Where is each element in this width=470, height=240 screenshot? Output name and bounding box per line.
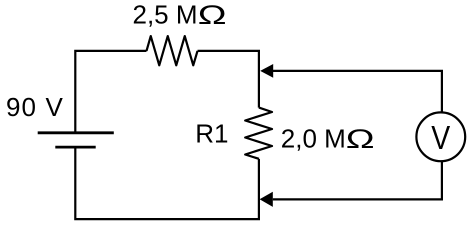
svg-text:Ω: Ω <box>346 125 375 155</box>
wire: resistor to top-right corner, down to R1 top <box>198 51 259 108</box>
arrowhead: bottom voltmeter lead pointing at middle-branch node <box>260 192 273 207</box>
resistor R1 vertical zigzag <box>245 108 272 159</box>
battery 90 V: short plate (-) <box>55 146 95 149</box>
arrowhead: top voltmeter lead pointing at middle-branch node <box>260 64 273 78</box>
resistor 2,5 MΩ horizontal zigzag <box>147 36 198 65</box>
svg-text:90 V: 90 V <box>6 92 64 122</box>
svg-text:2,5 M: 2,5 M <box>133 0 198 30</box>
svg-text:Ω: Ω <box>198 1 227 31</box>
svg-text:2,0 M: 2,0 M <box>281 124 346 154</box>
svg-text:V: V <box>431 119 450 157</box>
svg-text:R1: R1 <box>195 118 228 148</box>
wire: bottom voltmeter lead from circle bottom down then left to arrowhead <box>273 161 442 199</box>
wire: R1 bottom down to bottom-right corner, bottom wire left, up to battery bottom plate <box>75 147 259 219</box>
voltmeter V: circle body <box>416 112 465 161</box>
wire: left vertical from battery top plate up to top-left corner, then top wire to resistor <box>75 51 146 133</box>
wire: top voltmeter lead from arrowhead right then down to voltmeter circle <box>273 71 442 113</box>
battery 90 V: long plate (+) <box>38 131 114 134</box>
